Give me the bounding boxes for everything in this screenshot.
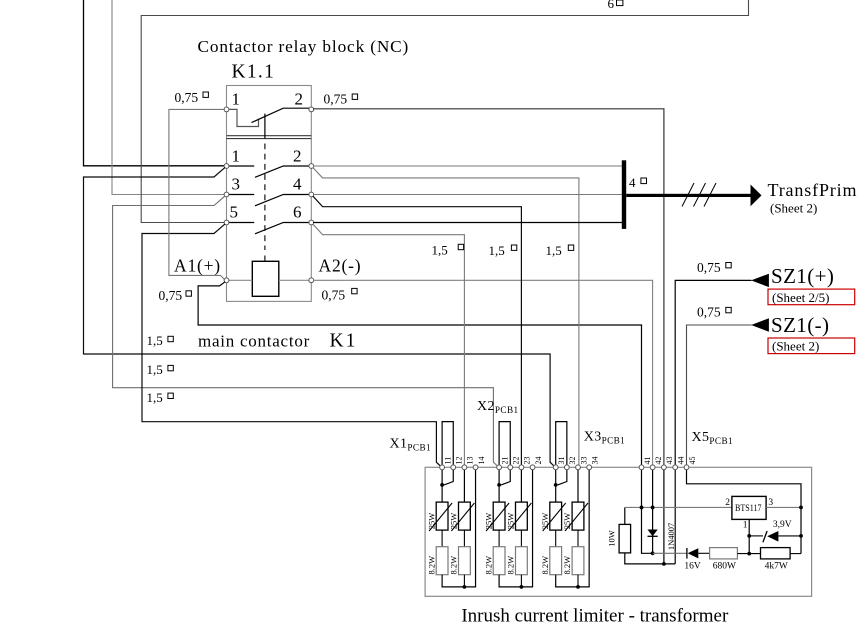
terminal X5.42 [650,465,655,470]
terminal X1.12 [451,465,456,470]
junction dot [497,483,501,487]
svg-text:11: 11 [443,457,452,465]
SECTION: left bundle [84,109,664,466]
wire X5.45 to right side [687,470,802,554]
terminal X1.13 [462,465,467,470]
wire X1.12 jog to junction [444,470,453,485]
svg-text:Inrush current limiter - trans: Inrush current limiter - transformer [461,606,729,627]
svg-text:25W: 25W [506,513,516,530]
svg-text:1,5: 1,5 [432,243,448,258]
svg-text:43: 43 [665,457,674,465]
wire X5.43 down to rail dot [663,470,665,564]
svg-text:1,5: 1,5 [489,243,505,258]
SECTION: top feeds [84,0,749,223]
junction dots gate line [640,506,644,510]
junction dots pin1 riser [747,534,751,538]
wire resistor (right) to rail [577,575,579,587]
wire X1.13 down [463,470,465,502]
svg-text:12: 12 [455,457,464,465]
svg-text:6: 6 [608,0,615,11]
wire A2 continuation to X5.42 [314,280,653,465]
zener diode 3,9V [749,535,763,537]
svg-text:BTS117: BTS117 [735,504,762,514]
terminal circle A1 [224,278,229,283]
bottom rail to X2.24 [499,470,532,587]
svg-text:21: 21 [500,456,509,464]
resistor 4k7W [761,548,791,559]
svg-text:2: 2 [293,146,302,165]
svg-text:42: 42 [654,457,663,465]
svg-text:8.2W: 8.2W [426,556,436,575]
svg-text:K1.1: K1.1 [232,62,276,83]
sheet reference box (Sheet 2/5) [768,289,855,305]
svg-text:main contactor: main contactor [198,332,310,351]
svg-text:25W: 25W [562,513,572,530]
terminal X1.14 [473,465,478,470]
main contactor block divider lines [227,136,312,139]
actuator dashed linkage [264,144,266,251]
svg-text:1,5: 1,5 [546,243,562,258]
svg-text:8.2W: 8.2W [483,556,493,575]
svg-text:(Sheet 2): (Sheet 2) [770,201,817,216]
svg-text:1,5: 1,5 [147,390,163,405]
thermistor 25W (right) [459,502,471,530]
wire terminal2 continuation to X3.33 [313,168,579,465]
wire X2.23 down [520,470,522,502]
wire BTS117 pin3 [766,506,801,508]
svg-text:SZ1(+): SZ1(+) [771,264,834,288]
svg-text:5: 5 [230,203,239,222]
resistor 680W [710,548,738,559]
resistor 8.2W (left) [493,547,505,575]
main contact 3-4 [229,195,309,206]
svg-text:1: 1 [743,521,748,531]
wire thermistor to resistor (right) [577,530,579,547]
main contact 5-6 [229,223,309,234]
main contact 1-2 [229,166,309,177]
junction dot on rail [463,585,467,589]
svg-text:TransfPrim: TransfPrim [768,180,858,200]
wire X1.11 down [441,470,443,502]
wire terminal4 continuation to X2.23 [313,197,521,466]
svg-text:0,75: 0,75 [175,90,199,105]
NC contact symbol (terminals 1-2) [229,108,309,138]
zener diode 16V [653,552,687,554]
terminal circles main contacts [224,164,314,225]
bottom rail to X1.14 [442,470,475,587]
connector X1 jumper link 11-12 [442,422,453,465]
terminal X5.43 [662,465,667,470]
svg-text:13: 13 [466,457,475,465]
svg-text:41: 41 [643,457,652,465]
terminal X3.31 [553,465,558,470]
terminal X3.34 [587,465,592,470]
terminal X5.41 [639,465,644,470]
terminal circle K1.1 pin2 [309,107,314,112]
bus bar node TransfPrim [622,160,626,229]
wire thermistor to resistor (left) [555,530,557,547]
junction dots right riser [799,506,803,510]
svg-text:0,75: 0,75 [697,260,721,275]
wire A1 continuation to X5.41 [198,282,641,465]
svg-text:25W: 25W [426,513,436,530]
wire X2.22 jog to junction [501,470,510,485]
wire 680W to 4k7W [737,553,760,555]
resistor 8.2W (left) [436,547,448,575]
svg-text:8.2W: 8.2W [506,556,516,575]
terminal X5.44 [673,465,678,470]
svg-text:45: 45 [688,457,697,465]
slash marks on feeder [682,183,716,207]
thick feeder line to TransfPrim [626,194,752,197]
svg-text:680W: 680W [713,562,736,572]
wire X2.21 down [498,470,500,502]
svg-text:1: 1 [232,90,241,109]
terminal X2.22 [508,465,513,470]
terminal X3.33 [576,465,581,470]
terminal X5.45 [684,465,689,470]
svg-text:2: 2 [295,90,304,109]
sheet reference box (Sheet 2) [768,338,855,354]
svg-text:32: 32 [568,457,577,465]
svg-text:1,5: 1,5 [147,333,163,348]
arrow SZ1(+) [751,274,769,287]
svg-text:4: 4 [629,175,636,190]
wire resistor (right) to rail [463,575,465,587]
terminal X3.32 [564,465,569,470]
thermistor 25W (left) [550,502,562,530]
svg-text:33: 33 [579,457,588,465]
wire X3.33 down [577,470,579,502]
resistor 8.2W (right) [516,547,528,575]
svg-text:16V: 16V [684,562,701,572]
inrush limiter PCB1 box [425,467,811,596]
contactor aux block box K1.1 [227,86,312,302]
thermistor 25W (left) [493,502,505,530]
arrow head TransfPrim [751,185,762,207]
thermistor 25W (right) [516,502,528,530]
svg-text:A2(-): A2(-) [319,256,362,276]
wire thermistor to resistor (right) [520,530,522,547]
svg-text:6: 6 [293,203,302,222]
wire SZ1(+) to X5.44 [675,280,751,465]
svg-text:4: 4 [293,175,302,194]
svg-text:3: 3 [232,175,241,194]
terminal X1.11 [440,465,445,470]
terminal X2.24 [530,465,535,470]
svg-text:44: 44 [677,457,686,465]
svg-text:3: 3 [768,498,773,508]
svg-text:25W: 25W [540,513,550,530]
svg-text:1: 1 [232,146,241,165]
wire 4k7W to right riser [790,553,801,555]
wire feed (terminal 3 supply, from top) [112,0,224,195]
transistor BTS117 [732,496,766,519]
wire terminal1 continuation to X3.31 [84,168,555,466]
SECTION: right bundle [313,166,622,465]
wire gate line to BTS117 pin2 [625,506,732,508]
wire BTS117 pin1 [748,519,750,553]
svg-text:3,9V: 3,9V [773,520,792,530]
connector X3 jumper link 31-32 [556,422,567,465]
wire terminal5 continuation to X1.11 [142,224,440,466]
wire terminal2 to bus [314,165,622,167]
resistor 8.2W (right) [459,547,471,575]
wire thermistor to resistor (left) [441,530,443,547]
svg-text:34: 34 [590,457,599,465]
svg-text:14: 14 [477,457,486,465]
connector X2 jumper link 21-22 [499,422,510,465]
svg-text:(Sheet 2): (Sheet 2) [772,339,819,354]
wire K1.1 pin1 to coil A1 [169,109,225,279]
svg-text:0,75: 0,75 [322,288,346,303]
svg-text:24: 24 [534,457,543,465]
thermistor 25W (right) [572,502,584,530]
svg-text:K1: K1 [330,331,358,352]
diode 1N4007 [648,530,658,537]
junction dot [440,483,444,487]
svg-text:0,75: 0,75 [324,91,348,106]
wire feed L (terminal 1 supply, from top) [84,0,224,166]
junction dot on rail [576,585,580,589]
terminal X2.23 [519,465,524,470]
svg-text:25W: 25W [449,513,459,530]
wire terminal6 to bus [314,222,622,224]
coil K1 [252,261,278,296]
svg-text:10W: 10W [606,530,616,547]
svg-text:8.2W: 8.2W [449,556,459,575]
terminal circle K1.1 pin1 [224,107,229,112]
svg-text:(Sheet 2/5): (Sheet 2/5) [772,290,829,305]
svg-text:23: 23 [523,457,532,465]
wire terminal4 to bus [314,194,622,196]
thermistor 25W (left) [436,502,448,530]
resistor 8.2W (right) [572,547,584,575]
wire terminal6 continuation to X1.13 [313,225,464,466]
svg-text:0,75: 0,75 [697,304,721,319]
svg-text:SZ1(-): SZ1(-) [771,313,829,337]
svg-text:8.2W: 8.2W [562,556,572,575]
svg-text:2: 2 [725,498,730,508]
junction dot on rail [520,585,524,589]
junction dot [554,483,558,487]
svg-text:8.2W: 8.2W [540,556,550,575]
svg-text:22: 22 [512,457,521,465]
arrow SZ1(-) [751,318,769,331]
terminal circle A2 [309,278,314,283]
resistor 8.2W (left) [550,547,562,575]
coil stubs [229,279,309,281]
wire X5.44 down to rail end [674,470,676,564]
wire thermistor to resistor (left) [498,530,500,547]
wire thermistor to resistor (right) [463,530,465,547]
svg-text:1N4007: 1N4007 [666,523,676,550]
wire resistor (right) to rail [520,575,522,587]
junction dot rail 42 [651,551,655,555]
svg-text:31: 31 [557,457,566,465]
svg-text:Contactor relay block (NC): Contactor relay block (NC) [198,37,410,56]
resistor 10W branch [625,507,675,564]
coil top stub [264,256,266,262]
wire X3.32 jog to junction [558,470,567,485]
svg-text:1,5: 1,5 [147,362,163,377]
wire X3.31 down [555,470,557,502]
wire terminal3 continuation to X2.21 [113,196,498,466]
wire X5.42 down through diode 1N4007 [652,470,654,554]
svg-text:4k7W: 4k7W [765,562,788,572]
wire feed (terminal 5 supply, from top right) [141,0,748,223]
wire K1.1 pin2 to X5.43 [314,109,664,465]
svg-text:25W: 25W [483,513,493,530]
svg-text:0,75: 0,75 [159,288,183,303]
wire SZ1(-) to X5.45 [687,325,752,465]
terminal X2.21 [497,465,502,470]
junction dot rail 43 [662,562,666,566]
bottom rail to X3.34 [556,470,589,587]
wire X5.41 to rail [642,470,653,554]
svg-text:A1(+): A1(+) [174,256,221,276]
